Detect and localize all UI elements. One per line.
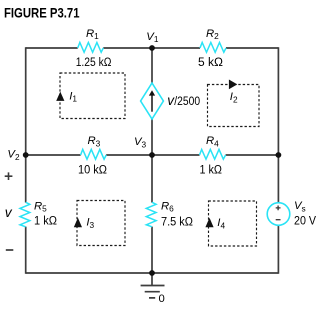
svg-text:1.25 kΩ: 1.25 kΩ	[76, 55, 112, 69]
svg-text:20 V: 20 V	[294, 213, 317, 227]
svg-text:FIGURE P3.71: FIGURE P3.71	[4, 6, 80, 21]
svg-text:V1: V1	[146, 31, 159, 44]
svg-text:R5: R5	[34, 200, 47, 213]
svg-text:0: 0	[159, 293, 165, 305]
svg-text:Vs: Vs	[294, 200, 306, 213]
svg-text:V3: V3	[134, 136, 147, 149]
svg-text:V2: V2	[7, 149, 20, 162]
svg-text:1 kΩ: 1 kΩ	[34, 213, 57, 227]
svg-text:R1: R1	[86, 28, 99, 41]
svg-text:I3: I3	[86, 217, 94, 230]
svg-text:v: v	[5, 205, 13, 220]
svg-text:R2: R2	[206, 28, 219, 41]
svg-text:10 kΩ: 10 kΩ	[78, 162, 107, 176]
svg-text:I2: I2	[230, 91, 238, 104]
svg-text:R6: R6	[161, 200, 174, 213]
svg-text:/2500: /2500	[174, 94, 200, 108]
svg-text:I4: I4	[217, 217, 225, 230]
svg-text:7.5 kΩ: 7.5 kΩ	[161, 214, 193, 228]
svg-text:R4: R4	[206, 135, 219, 148]
svg-text:5 kΩ: 5 kΩ	[198, 55, 223, 69]
svg-text:I1: I1	[69, 90, 77, 103]
svg-text:R3: R3	[88, 135, 101, 148]
svg-text:1 kΩ: 1 kΩ	[200, 162, 223, 176]
